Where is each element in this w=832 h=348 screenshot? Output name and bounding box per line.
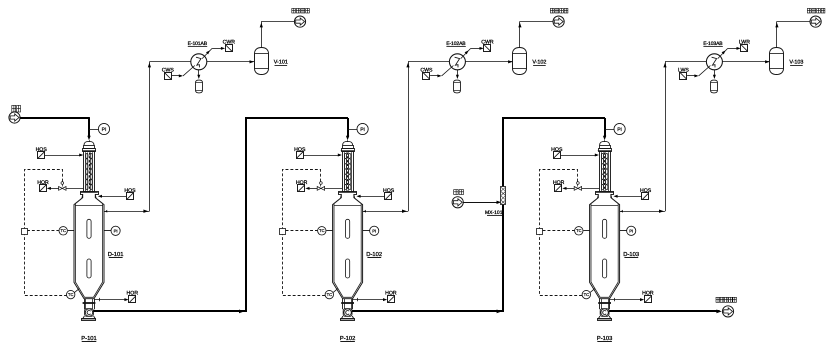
pump P-101: casing (85, 309, 94, 317)
condensate pot under E-103AB (714, 70, 716, 77)
column condenser: bottom flange (81, 192, 99, 195)
column condenser: top flange (342, 149, 355, 152)
instrument TC (controller) of D-103 (575, 227, 583, 235)
column condenser: support legs (597, 194, 598, 199)
svg-text:V-101: V-101 (274, 60, 288, 66)
instrument TC at D-102 cone (333, 288, 338, 292)
label: 聚合物产品 (716, 297, 720, 302)
wire: HOS supply to D-103 column bottom (615, 196, 642, 198)
wire: condenser inlet line to E-101AB (149, 61, 254, 63)
svg-text:CWR: CWR (481, 40, 494, 46)
instrument TC (controller) of D-101 (59, 227, 67, 235)
signal branch (dashed) to TC of D-103 (543, 230, 575, 232)
svg-text:HOR: HOR (385, 291, 397, 297)
column condenser: tube bundle body (600, 152, 611, 192)
column condenser: support legs (82, 194, 83, 199)
instrument TC at D-103 cone (590, 288, 595, 292)
pump P-101: base (83, 316, 96, 319)
wire: HOR from D-101 bottom neck (94, 299, 127, 301)
vessel D-103: sight glass slots (603, 219, 607, 238)
pump P-102: base (341, 316, 354, 319)
svg-text:TC: TC (319, 228, 324, 233)
static mixer MX-101 (501, 187, 506, 205)
utility square CWR (cooling return) (484, 45, 491, 52)
column condenser on top of D-101: dome (84, 141, 94, 145)
instrument TC on D-103 shell (583, 230, 589, 232)
column condenser: top flange (599, 149, 612, 152)
utility square HOS (top, D-103 column) (554, 152, 561, 159)
signal line (dashed) TC loop of D-102 (283, 170, 326, 296)
label: vacuum system (550, 8, 554, 13)
utility square HOR (jacket oil return of D-102 column) (298, 185, 305, 192)
column condenser: top flange (83, 149, 96, 152)
column condenser on top of D-103: dome (600, 141, 610, 145)
column condenser: support legs (340, 194, 341, 199)
svg-text:P-101: P-101 (81, 335, 96, 342)
column condenser: upper drum (343, 146, 354, 149)
wire: feed drop line into D-101 (88, 118, 90, 137)
vessel D-101: sight glass slots (87, 219, 91, 238)
instrument PI on D-101 feed line (89, 129, 98, 131)
instrument TC on D-102 shell (326, 230, 332, 232)
label: vacuum system (292, 8, 296, 13)
vessel V-103 (770, 48, 784, 75)
instrument PI on D-102 feed line (348, 129, 357, 131)
svg-text:TC: TC (61, 228, 66, 233)
utility square HOR (bottom, D-101) (129, 296, 136, 303)
utility square LWR (cooling return) (741, 45, 748, 52)
svg-text:V-102: V-102 (532, 60, 546, 66)
condensate pot under E-101AB (198, 70, 200, 77)
wire: vapor line D-103 to condenser train (623, 211, 665, 213)
shared display square in D-102 TC loop (280, 229, 286, 235)
vessel D-101: jacketed shell (74, 194, 104, 299)
column condenser: bottom flange (339, 192, 357, 195)
svg-text:PI: PI (114, 228, 118, 233)
wire: vapor line D-101 to condenser train (108, 211, 150, 213)
connector: raw material (原料) inlet (9, 112, 20, 123)
utility square LWS (cooling supply) (680, 73, 687, 80)
utility square HOR (jacket oil return of D-101 column) (40, 185, 47, 192)
svg-text:TC: TC (576, 228, 581, 233)
heat exchanger E-103AB (706, 54, 722, 70)
wire: V-103 to vacuum system (776, 21, 778, 47)
svg-text:HOR: HOR (553, 180, 565, 186)
wire: V-102 to vacuum system (519, 21, 521, 47)
instrument TC at D-101 cone (74, 288, 79, 292)
svg-text:HOR: HOR (642, 291, 654, 297)
wire: P-103 discharge to product (bold) (608, 310, 720, 312)
wire: vapor riser (149, 62, 151, 211)
wire: vapor riser (408, 62, 410, 211)
vessel D-102: sight glass slots (346, 219, 350, 238)
wire: P-102 discharge to D-103 via MX-101 (bold transfer line) (351, 118, 605, 311)
column condenser: tube bundle body (84, 152, 95, 192)
column condenser: tube bundle body (343, 152, 354, 192)
vessel D-103: shoulder seam line (591, 205, 618, 207)
column condenser: bottom flange (596, 192, 614, 195)
svg-text:PI: PI (360, 127, 365, 133)
wire: HOR line from D-101 column (66, 188, 84, 190)
connector: vacuum system (train 3) (810, 16, 821, 27)
condensate pot under E-102AB (457, 70, 459, 77)
label: 氮气 (454, 190, 458, 195)
instrument TC (controller) of D-102 (318, 227, 326, 235)
shared display square in D-103 TC loop (537, 229, 543, 235)
svg-text:HOS: HOS (551, 147, 563, 153)
signal line (dashed) TC loop of D-103 (540, 170, 583, 296)
connector: nitrogen (氮气) inlet (452, 197, 463, 208)
vessel D-103: jacketed shell (590, 194, 620, 299)
svg-text:P-103: P-103 (597, 335, 612, 342)
svg-text:TC: TC (68, 292, 73, 297)
wire: feed drop line into D-102 (347, 118, 349, 137)
svg-text:HOS: HOS (640, 188, 652, 194)
signal line (dashed) TC loop of D-101 (25, 170, 67, 296)
connector: polymer product outlet (聚合物产品) (722, 306, 733, 317)
svg-text:HOR: HOR (127, 291, 139, 297)
svg-text:HOS: HOS (36, 147, 48, 153)
instrument TC on D-101 shell (68, 230, 74, 232)
svg-text:HOR: HOR (37, 180, 49, 186)
wire: CWR out of E-102AB (461, 48, 471, 58)
svg-text:PI: PI (102, 127, 107, 133)
vessel D-102: jacketed shell (333, 194, 363, 299)
vessel D-102: vapor nozzle (363, 211, 367, 213)
utility square CWS (cooling supply) (165, 73, 172, 80)
instrument PI on D-101 shell (104, 230, 111, 232)
wire: CWS into E-102AB (430, 75, 440, 77)
svg-text:PI: PI (372, 228, 376, 233)
heat exchanger E-101AB (191, 54, 207, 70)
label: 原料 (12, 105, 16, 112)
wire: HOS supply to D-103 column top (561, 155, 598, 157)
label: vacuum system (807, 8, 811, 13)
wire: HOR line from D-103 column (582, 188, 600, 190)
wire: HOR from D-102 bottom neck (353, 299, 386, 301)
svg-text:CWS: CWS (420, 67, 433, 73)
pump P-102: suction neck (342, 299, 344, 310)
utility square HOS (top, D-101 column) (38, 152, 45, 159)
svg-text:TC: TC (327, 292, 332, 297)
pump P-101: suction neck (84, 299, 86, 310)
wire: feed drop line into D-103 (604, 118, 606, 137)
wire: vapor riser (665, 62, 667, 211)
wire: HOS supply to D-102 column bottom (358, 196, 385, 198)
vessel D-101: shoulder seam line (75, 205, 102, 207)
svg-text:PI: PI (617, 127, 622, 133)
wire: nitrogen to MX-101 (463, 202, 498, 204)
control valve on HOR line of D-101 (59, 187, 63, 191)
signal branch (dashed) to TC of D-102 (286, 230, 318, 232)
utility square HOR (jacket oil return of D-103 column) (555, 185, 562, 192)
wire: raw material feed to D-101 (20, 117, 90, 119)
utility square HOR (bottom, D-102) (388, 296, 395, 303)
utility square CWR (cooling return) (226, 45, 233, 52)
wire: CWS into E-101AB (172, 75, 182, 77)
wire: LWR out of E-103AB (718, 48, 728, 58)
pump P-103: casing (600, 309, 609, 317)
svg-text:CWR: CWR (223, 40, 236, 46)
wire: V-101 to vacuum system (261, 21, 263, 47)
vessel V-102 (513, 48, 527, 75)
vessel D-103: vapor nozzle (620, 211, 624, 213)
instrument PI on D-102 shell (363, 230, 370, 232)
vessel D-101: vapor nozzle (104, 211, 108, 213)
column condenser: upper drum (84, 146, 95, 149)
utility square HOS (bottom right of D-103 column) (642, 193, 649, 200)
svg-text:P-102: P-102 (340, 335, 355, 342)
svg-text:PI: PI (629, 228, 633, 233)
svg-text:MX-101: MX-101 (485, 210, 503, 216)
svg-text:V-103: V-103 (789, 60, 803, 66)
utility square CWS (cooling supply) (423, 73, 430, 80)
control valve on HOR line of D-102 (317, 187, 321, 191)
utility square HOS (bottom right of D-101 column) (127, 193, 134, 200)
utility square HOS (top, D-102 column) (297, 152, 304, 159)
column condenser on top of D-102: dome (343, 141, 353, 145)
svg-text:HOS: HOS (294, 147, 306, 153)
wire: HOS supply to D-101 column bottom (100, 196, 127, 198)
vessel D-102: shoulder seam line (334, 205, 361, 207)
wire: HOR from D-103 bottom neck (610, 299, 643, 301)
wire: HOS supply to D-102 column top (304, 155, 341, 157)
svg-text:HOS: HOS (383, 188, 395, 194)
svg-text:LWS: LWS (678, 67, 689, 73)
svg-text:HOR: HOR (296, 180, 308, 186)
connector: vacuum system (train 2) (553, 16, 564, 27)
wire: P-101 discharge to D-102 (bold transfer line) (92, 118, 348, 311)
svg-text:TC: TC (584, 292, 589, 297)
shared display square in D-101 TC loop (22, 229, 28, 235)
wire: vapor line D-102 to condenser train (366, 211, 408, 213)
wire: condenser inlet line to E-103AB (665, 61, 770, 63)
signal branch (dashed) to TC of D-101 (27, 230, 59, 232)
connector: vacuum system (train 1) (294, 16, 305, 27)
instrument PI on D-103 feed line (605, 129, 614, 131)
heat exchanger E-102AB (449, 54, 465, 70)
wire: condenser inlet line to E-102AB (408, 61, 513, 63)
svg-text:CWS: CWS (162, 67, 175, 73)
vessel V-101 (255, 48, 269, 75)
pump P-103: suction neck (599, 299, 601, 310)
utility square HOR (bottom, D-103) (645, 296, 652, 303)
wire: CWR out of E-101AB (202, 48, 212, 58)
column condenser: upper drum (600, 146, 611, 149)
svg-text:HOS: HOS (124, 188, 136, 194)
utility square HOS (bottom right of D-102 column) (385, 193, 392, 200)
pump P-103: base (598, 316, 611, 319)
control valve on HOR line of D-103 (574, 187, 578, 191)
wire: LWS into E-103AB (687, 75, 697, 77)
instrument PI on D-103 shell (620, 230, 627, 232)
wire: HOS supply to D-101 column top (45, 155, 82, 157)
pump P-102: casing (343, 309, 352, 317)
svg-text:LWR: LWR (739, 40, 750, 46)
wire: HOR line from D-102 column (325, 188, 343, 190)
